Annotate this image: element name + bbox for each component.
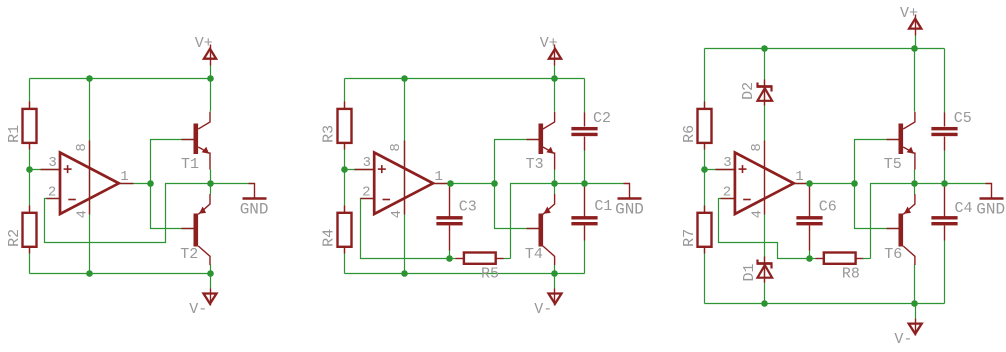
wire feedback to emitter node U2 bbox=[511, 184, 590, 259]
svg-text:R6: R6 bbox=[681, 125, 698, 143]
junction C1 C2 node bbox=[581, 180, 588, 187]
wire T1 emitter node bbox=[210, 170, 212, 195]
wire opamp output bbox=[119, 183, 151, 185]
svg-text:D1: D1 bbox=[741, 263, 758, 281]
svg-text:2: 2 bbox=[723, 184, 731, 200]
junction noninverting node U2 bbox=[341, 166, 348, 173]
resistor R2 bbox=[6, 206, 36, 254]
svg-text:4: 4 bbox=[75, 210, 91, 218]
junction output node bbox=[147, 180, 154, 187]
wire C5 top bbox=[944, 49, 946, 113]
svg-text:R5: R5 bbox=[481, 265, 499, 282]
wire inverting input feedback U3 bbox=[719, 199, 810, 259]
svg-text:4: 4 bbox=[750, 210, 766, 218]
svg-text:8: 8 bbox=[74, 143, 90, 151]
svg-text:D2: D2 bbox=[740, 82, 757, 100]
svg-text:V+: V+ bbox=[900, 5, 918, 22]
resistor R4 bbox=[320, 206, 351, 254]
transistor T6 bbox=[884, 194, 915, 265]
svg-text:R4: R4 bbox=[320, 229, 337, 247]
resistor R1 bbox=[6, 102, 36, 150]
op-amp U3 bbox=[716, 141, 809, 215]
transistor T4 bbox=[525, 194, 555, 265]
wire base drive T3 T4 bbox=[495, 140, 539, 229]
wire V+ rail circuit 2 bbox=[345, 78, 585, 80]
wire D2 opamp pin8 bbox=[764, 49, 766, 141]
wire C2 bottom bbox=[584, 151, 586, 184]
wire C5 bottom bbox=[944, 151, 946, 184]
svg-text:T4: T4 bbox=[525, 246, 543, 263]
capacitor C4 bbox=[931, 187, 972, 241]
junction emitter node c3 bbox=[911, 180, 918, 187]
svg-text:4: 4 bbox=[389, 210, 405, 218]
resistor R6 bbox=[681, 102, 712, 150]
wire T5 collector bbox=[914, 49, 916, 112]
junction base drive node c3 bbox=[851, 180, 858, 187]
svg-text:C2: C2 bbox=[593, 110, 611, 127]
wire V+ rail circuit 3 bbox=[705, 48, 945, 50]
wire base drive T1 bbox=[151, 140, 194, 229]
svg-text:C3: C3 bbox=[459, 198, 477, 215]
wire V- rail circuit 2 bbox=[345, 273, 585, 275]
junction top rail pin8 bbox=[86, 75, 93, 82]
junction top rail pin8 U2 bbox=[401, 75, 408, 82]
junction C6 R8 node bbox=[806, 255, 813, 262]
wire V- rail circuit 1 bbox=[30, 273, 211, 275]
wire noninverting input U2 bbox=[345, 169, 375, 171]
resistor R7 bbox=[681, 206, 712, 254]
ground GND circuit 2 bbox=[585, 184, 644, 219]
svg-text:V-: V- bbox=[894, 331, 912, 348]
svg-text:2: 2 bbox=[362, 184, 370, 200]
wire feedback to emitter node U3 bbox=[871, 184, 950, 259]
junction emitter node bbox=[207, 180, 214, 187]
junction C4 C5 node bbox=[941, 180, 948, 187]
wire C4 bottom bbox=[944, 241, 946, 304]
junction emitter node c2 bbox=[551, 180, 558, 187]
junction base drive node c2 bbox=[491, 180, 498, 187]
junction bottom rail pin4 U2 bbox=[401, 270, 408, 277]
wire opamp output U2 bbox=[433, 183, 495, 185]
svg-text:R7: R7 bbox=[681, 229, 698, 247]
junction output C3 node bbox=[447, 180, 454, 187]
wire T6 collector bbox=[914, 265, 916, 304]
wire T3 collector bbox=[554, 79, 556, 112]
wire T2 collector bbox=[210, 265, 212, 274]
wire opamp power pins U1 bbox=[89, 79, 91, 274]
junction top rail V+ bbox=[207, 75, 214, 82]
svg-text:C6: C6 bbox=[819, 198, 837, 215]
wire pin4 D1 bbox=[764, 215, 766, 304]
junction top rail V+ c2 bbox=[551, 75, 558, 82]
junction C3 R5 node bbox=[446, 255, 453, 262]
capacitor C2 bbox=[571, 110, 611, 151]
svg-text:3: 3 bbox=[363, 155, 371, 171]
wire inverting input feedback U2 bbox=[361, 199, 450, 259]
pin numbers U3 bbox=[723, 143, 804, 218]
supply V+ circuit 3 bbox=[900, 5, 921, 48]
svg-text:V-: V- bbox=[189, 301, 207, 318]
capacitor C3 bbox=[436, 187, 476, 251]
junction noninverting node bbox=[26, 166, 33, 173]
svg-text:2: 2 bbox=[48, 184, 56, 200]
capacitor C6 bbox=[796, 187, 836, 251]
svg-text:C5: C5 bbox=[954, 110, 972, 127]
svg-text:R8: R8 bbox=[842, 266, 860, 283]
svg-text:GND: GND bbox=[615, 200, 644, 218]
junction top rail D2 bbox=[761, 45, 768, 52]
junction bottom rail V- c2 bbox=[551, 270, 558, 277]
svg-text:1: 1 bbox=[120, 169, 128, 185]
junction output C6 node bbox=[806, 180, 813, 187]
wire R8 right bbox=[863, 258, 871, 260]
svg-text:T2: T2 bbox=[180, 246, 198, 263]
ground GND circuit 3 bbox=[945, 184, 1006, 219]
wire noninverting input bbox=[30, 169, 61, 171]
junction bottom rail pin4 bbox=[86, 270, 93, 277]
svg-text:8: 8 bbox=[388, 143, 404, 151]
svg-text:3: 3 bbox=[48, 155, 56, 171]
wire opamp output U3 bbox=[794, 183, 855, 185]
wire inverting input feedback bbox=[45, 184, 211, 243]
capacitor C5 bbox=[931, 110, 971, 151]
wire R5 right bbox=[504, 258, 511, 260]
wire C2 top bbox=[584, 79, 586, 113]
svg-text:8: 8 bbox=[749, 143, 765, 151]
ground GND circuit 1 bbox=[211, 184, 269, 219]
supply V- circuit 2 bbox=[534, 274, 561, 318]
junction bottom rail D1 bbox=[761, 300, 768, 307]
svg-text:1: 1 bbox=[795, 169, 803, 185]
wire T1 collector bbox=[210, 79, 212, 112]
svg-text:3: 3 bbox=[723, 155, 731, 171]
supply V+ circuit 2 bbox=[540, 35, 561, 78]
wire R6-R7 chain bbox=[704, 49, 706, 304]
wire C1 bottom bbox=[584, 241, 586, 274]
wire base drive T5 T6 bbox=[855, 140, 899, 229]
zener diode D1 bbox=[741, 257, 773, 283]
junction bottom rail V- bbox=[207, 270, 214, 277]
svg-text:C4: C4 bbox=[955, 200, 973, 217]
svg-text:T6: T6 bbox=[884, 246, 902, 263]
svg-text:R3: R3 bbox=[320, 125, 337, 143]
wire V+ rail circuit 1 bbox=[30, 78, 211, 80]
svg-text:GND: GND bbox=[976, 200, 1005, 218]
supply V- circuit 3 bbox=[894, 304, 921, 348]
resistor R8 bbox=[816, 253, 864, 283]
capacitor C1 bbox=[571, 187, 612, 241]
svg-text:T1: T1 bbox=[181, 156, 199, 173]
wire R8 left bbox=[810, 258, 816, 260]
junction top rail V+ c3 bbox=[911, 45, 918, 52]
svg-text:R1: R1 bbox=[6, 125, 23, 143]
transistor T1 bbox=[181, 112, 210, 173]
junction noninverting node U3 bbox=[701, 166, 708, 173]
transistor T2 bbox=[180, 194, 210, 265]
wire C3 bottom to R5 bbox=[449, 251, 451, 259]
wire R5 left bbox=[450, 258, 456, 260]
wire R1-R2 chain bbox=[29, 79, 31, 274]
pin numbers U1 bbox=[48, 143, 129, 218]
svg-text:1: 1 bbox=[435, 169, 443, 185]
transistor T5 bbox=[884, 112, 915, 173]
wire V- rail circuit 3 bbox=[705, 303, 945, 305]
wire T5 emitter node bbox=[914, 170, 916, 195]
svg-text:GND: GND bbox=[240, 200, 269, 218]
svg-text:T5: T5 bbox=[884, 156, 902, 173]
junction bottom rail V- c3 bbox=[911, 300, 918, 307]
transistor T3 bbox=[526, 112, 555, 173]
resistor R3 bbox=[320, 102, 351, 150]
svg-text:R2: R2 bbox=[6, 229, 23, 247]
wire R3-R4 chain bbox=[344, 79, 346, 274]
supply V+ circuit 1 bbox=[195, 35, 216, 78]
wire C6 bottom to R8 bbox=[809, 251, 811, 259]
resistor R5 bbox=[456, 253, 504, 283]
wire noninverting input U3 bbox=[705, 169, 735, 171]
wire opamp power pins U2 bbox=[404, 79, 406, 274]
svg-text:C1: C1 bbox=[594, 198, 612, 215]
supply V- circuit 1 bbox=[189, 274, 216, 318]
op-amp U1 bbox=[41, 141, 134, 215]
wire T3 emitter node bbox=[554, 170, 556, 195]
svg-text:V+: V+ bbox=[195, 35, 213, 52]
pin numbers U2 bbox=[362, 143, 443, 218]
svg-text:V-: V- bbox=[534, 301, 552, 318]
op-amp U2 bbox=[355, 141, 449, 215]
wire T4 collector bbox=[554, 265, 556, 274]
svg-text:V+: V+ bbox=[540, 35, 558, 52]
zener diode D2 bbox=[740, 80, 773, 106]
svg-text:T3: T3 bbox=[526, 156, 544, 173]
